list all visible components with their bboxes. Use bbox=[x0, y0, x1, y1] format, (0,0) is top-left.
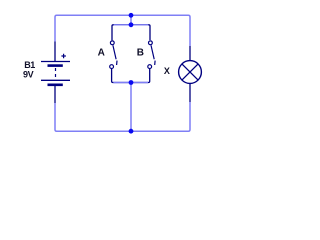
node junction bbox=[129, 13, 134, 18]
node junction bbox=[129, 129, 134, 134]
node junction bbox=[129, 22, 134, 27]
switch B bbox=[148, 41, 155, 69]
svg-text:9V: 9V bbox=[23, 69, 34, 79]
wire bbox=[112, 69, 150, 83]
wire bbox=[130, 83, 132, 132]
svg-text:B: B bbox=[137, 47, 144, 58]
lamp X bbox=[179, 46, 202, 102]
battery B1 bbox=[41, 42, 70, 104]
svg-text:X: X bbox=[164, 66, 170, 76]
wire bbox=[130, 15, 132, 25]
wire bbox=[55, 102, 190, 131]
wire bbox=[114, 24, 149, 26]
wire bbox=[55, 15, 190, 46]
svg-text:A: A bbox=[98, 47, 105, 58]
switch A bbox=[110, 41, 117, 69]
wire bbox=[112, 25, 150, 41]
node junction bbox=[129, 80, 134, 85]
wire bbox=[113, 82, 148, 84]
